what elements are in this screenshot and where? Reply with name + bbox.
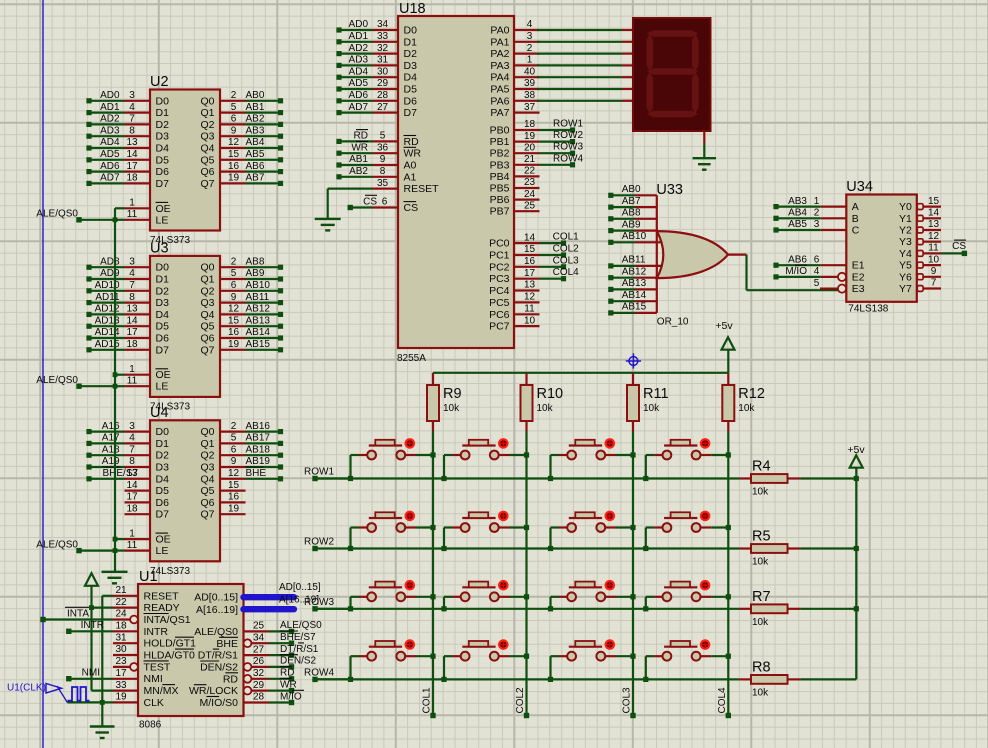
svg-text:PA5: PA5 xyxy=(490,84,509,96)
svg-text:CS: CS xyxy=(404,202,419,214)
svg-text:AD2: AD2 xyxy=(349,43,369,54)
svg-text:INTA/QS1: INTA/QS1 xyxy=(144,614,191,626)
svg-text:2: 2 xyxy=(231,256,237,267)
svg-text:AB6: AB6 xyxy=(246,161,265,172)
svg-text:10k: 10k xyxy=(752,557,769,568)
svg-text:AD15: AD15 xyxy=(95,339,120,350)
svg-text:OE: OE xyxy=(156,534,171,546)
svg-text:ROW1: ROW1 xyxy=(304,467,334,478)
svg-text:Q3: Q3 xyxy=(200,297,214,309)
svg-text:D3: D3 xyxy=(156,131,170,143)
svg-text:ALE/QS0: ALE/QS0 xyxy=(36,539,78,550)
svg-text:D7: D7 xyxy=(156,178,170,190)
svg-text:ALE/QS0: ALE/QS0 xyxy=(194,626,238,638)
svg-text:D4: D4 xyxy=(156,143,170,155)
svg-text:AD7: AD7 xyxy=(349,102,369,113)
svg-text:R12: R12 xyxy=(738,386,765,402)
svg-text:Y5: Y5 xyxy=(899,260,912,272)
svg-text:PB1: PB1 xyxy=(490,136,510,148)
svg-text:D2: D2 xyxy=(156,450,170,462)
svg-text:22: 22 xyxy=(524,166,536,177)
svg-text:AD4: AD4 xyxy=(349,66,369,77)
svg-text:17: 17 xyxy=(126,161,138,172)
svg-text:Q5: Q5 xyxy=(200,485,214,497)
svg-text:RD: RD xyxy=(280,668,294,679)
svg-text:ROW1: ROW1 xyxy=(553,119,583,130)
svg-text:M/IO: M/IO xyxy=(785,266,807,277)
svg-text:Y4: Y4 xyxy=(899,248,912,260)
svg-text:PC2: PC2 xyxy=(489,261,510,273)
svg-text:RD: RD xyxy=(404,136,420,148)
svg-text:Q4: Q4 xyxy=(200,143,214,155)
svg-text:1: 1 xyxy=(814,196,820,207)
svg-text:PA3: PA3 xyxy=(490,60,509,72)
svg-text:A1: A1 xyxy=(404,171,417,183)
svg-text:Q5: Q5 xyxy=(200,321,214,333)
svg-text:14: 14 xyxy=(126,480,138,491)
svg-text:D0: D0 xyxy=(156,262,170,274)
svg-text:COL4: COL4 xyxy=(717,687,728,714)
svg-text:15: 15 xyxy=(228,149,240,160)
svg-text:10k: 10k xyxy=(738,403,755,414)
svg-text:COL1: COL1 xyxy=(553,232,580,243)
svg-text:AB0: AB0 xyxy=(246,90,265,101)
svg-text:Q2: Q2 xyxy=(200,450,214,462)
svg-text:R8: R8 xyxy=(752,659,771,675)
svg-text:BHE/S7: BHE/S7 xyxy=(103,468,139,479)
svg-text:D0: D0 xyxy=(404,25,418,37)
svg-text:RD: RD xyxy=(354,131,368,142)
svg-text:R11: R11 xyxy=(643,386,669,402)
svg-text:17: 17 xyxy=(524,268,536,279)
svg-text:AB2: AB2 xyxy=(246,114,265,125)
svg-text:COL4: COL4 xyxy=(553,267,580,278)
svg-text:AD3: AD3 xyxy=(100,125,120,136)
svg-text:32: 32 xyxy=(377,43,389,54)
svg-text:29: 29 xyxy=(377,78,389,89)
svg-text:Q3: Q3 xyxy=(200,462,214,474)
svg-text:D6: D6 xyxy=(404,95,418,107)
svg-text:14: 14 xyxy=(126,315,138,326)
svg-text:AB18: AB18 xyxy=(246,444,271,455)
svg-text:COL2: COL2 xyxy=(515,687,526,714)
svg-text:Y1: Y1 xyxy=(899,213,912,225)
svg-text:DEN/S2: DEN/S2 xyxy=(200,661,238,673)
svg-text:18: 18 xyxy=(126,339,138,350)
svg-text:AB9: AB9 xyxy=(246,268,265,279)
svg-text:6: 6 xyxy=(231,280,237,291)
svg-text:PB2: PB2 xyxy=(490,148,510,160)
svg-text:27: 27 xyxy=(377,102,389,113)
svg-text:19: 19 xyxy=(228,173,240,184)
svg-text:D1: D1 xyxy=(156,274,170,286)
svg-text:D5: D5 xyxy=(156,485,170,497)
svg-text:NMI: NMI xyxy=(144,673,163,685)
svg-text:AD8: AD8 xyxy=(100,256,120,267)
svg-text:Q2: Q2 xyxy=(200,285,214,297)
svg-text:D5: D5 xyxy=(156,154,170,166)
svg-text:2: 2 xyxy=(527,43,533,54)
svg-text:D1: D1 xyxy=(156,107,170,119)
svg-text:D2: D2 xyxy=(156,285,170,297)
svg-text:HOLD/GT1: HOLD/GT1 xyxy=(144,638,197,650)
svg-text:AB8: AB8 xyxy=(246,256,265,267)
svg-text:14: 14 xyxy=(928,208,940,219)
svg-text:ALE/QS0: ALE/QS0 xyxy=(280,620,322,631)
svg-text:AD6: AD6 xyxy=(349,90,369,101)
svg-text:AB4: AB4 xyxy=(788,208,807,219)
svg-text:16: 16 xyxy=(228,492,240,503)
svg-text:19: 19 xyxy=(115,692,127,703)
svg-text:AB13: AB13 xyxy=(246,315,271,326)
svg-text:10: 10 xyxy=(928,254,940,265)
svg-text:11: 11 xyxy=(524,304,535,315)
svg-text:Q7: Q7 xyxy=(200,509,214,521)
svg-text:RESET: RESET xyxy=(404,183,440,195)
svg-text:11: 11 xyxy=(127,375,138,386)
svg-text:D3: D3 xyxy=(156,297,170,309)
svg-text:RD: RD xyxy=(223,673,239,685)
svg-text:AB3: AB3 xyxy=(246,125,265,136)
svg-text:9: 9 xyxy=(931,266,937,277)
svg-text:U2: U2 xyxy=(150,74,169,90)
svg-text:D5: D5 xyxy=(404,84,418,96)
svg-text:INTA: INTA xyxy=(67,608,89,619)
svg-text:D0: D0 xyxy=(156,95,170,107)
svg-text:WR: WR xyxy=(280,679,297,690)
svg-text:5: 5 xyxy=(814,278,820,289)
svg-text:19: 19 xyxy=(228,503,240,514)
svg-text:74LS138: 74LS138 xyxy=(848,304,888,315)
svg-text:Q0: Q0 xyxy=(200,426,214,438)
svg-text:9: 9 xyxy=(231,292,237,303)
svg-text:AB19: AB19 xyxy=(246,456,271,467)
svg-text:PB6: PB6 xyxy=(490,194,510,206)
svg-text:CS: CS xyxy=(363,196,377,207)
svg-text:2: 2 xyxy=(231,421,237,432)
svg-text:PA4: PA4 xyxy=(490,72,509,84)
svg-text:AD0: AD0 xyxy=(349,19,369,30)
svg-text:CS: CS xyxy=(952,241,966,252)
svg-text:Y2: Y2 xyxy=(899,225,912,237)
svg-text:9: 9 xyxy=(231,125,237,136)
svg-text:M/IO: M/IO xyxy=(280,691,302,702)
svg-text:Q4: Q4 xyxy=(200,309,214,321)
svg-text:PC4: PC4 xyxy=(489,285,510,297)
svg-text:Q7: Q7 xyxy=(200,178,214,190)
svg-text:INTR: INTR xyxy=(81,620,104,631)
svg-text:12: 12 xyxy=(228,304,240,315)
svg-text:6: 6 xyxy=(814,254,820,265)
svg-text:32: 32 xyxy=(253,668,265,679)
svg-text:4: 4 xyxy=(129,102,135,113)
svg-text:8: 8 xyxy=(380,166,386,177)
svg-text:2: 2 xyxy=(814,208,820,219)
svg-text:36: 36 xyxy=(377,142,389,153)
svg-text:D6: D6 xyxy=(156,333,170,345)
svg-text:3: 3 xyxy=(129,90,135,101)
svg-text:PB7: PB7 xyxy=(490,206,510,218)
svg-text:4: 4 xyxy=(129,433,135,444)
svg-text:Q0: Q0 xyxy=(200,262,214,274)
svg-text:AB12: AB12 xyxy=(622,266,647,277)
svg-text:MN/MX: MN/MX xyxy=(144,685,179,697)
svg-text:ROW2: ROW2 xyxy=(304,537,334,548)
svg-text:R7: R7 xyxy=(752,589,771,605)
svg-text:ROW4: ROW4 xyxy=(304,667,334,678)
svg-text:18: 18 xyxy=(115,621,127,632)
svg-text:4: 4 xyxy=(129,268,135,279)
svg-text:16: 16 xyxy=(228,161,240,172)
svg-text:20: 20 xyxy=(524,142,536,153)
svg-text:19: 19 xyxy=(228,339,240,350)
svg-text:5: 5 xyxy=(231,268,237,279)
svg-text:1: 1 xyxy=(129,198,135,209)
svg-text:21: 21 xyxy=(524,154,536,165)
svg-text:D3: D3 xyxy=(156,462,170,474)
svg-text:BHE/S7: BHE/S7 xyxy=(280,632,316,643)
svg-text:14: 14 xyxy=(524,232,536,243)
svg-text:Q1: Q1 xyxy=(200,107,214,119)
svg-text:D4: D4 xyxy=(404,72,418,84)
svg-text:5: 5 xyxy=(231,433,237,444)
svg-text:29: 29 xyxy=(253,680,265,691)
svg-text:M/IO/S0: M/IO/S0 xyxy=(199,697,238,709)
svg-text:AB2: AB2 xyxy=(349,166,368,177)
svg-text:Y0: Y0 xyxy=(899,201,912,213)
svg-text:BHE: BHE xyxy=(216,638,238,650)
svg-text:38: 38 xyxy=(524,90,536,101)
svg-text:AD2: AD2 xyxy=(100,114,120,125)
svg-text:15: 15 xyxy=(928,196,940,207)
svg-text:AB10: AB10 xyxy=(622,231,647,242)
svg-text:ROW2: ROW2 xyxy=(553,130,583,141)
svg-text:6: 6 xyxy=(231,444,237,455)
svg-text:15: 15 xyxy=(228,315,240,326)
svg-text:34: 34 xyxy=(377,19,389,30)
svg-text:AD1: AD1 xyxy=(349,31,369,42)
svg-text:AB11: AB11 xyxy=(622,255,646,266)
svg-text:Q1: Q1 xyxy=(200,438,214,450)
svg-text:AB5: AB5 xyxy=(246,149,265,160)
svg-text:12: 12 xyxy=(928,231,940,242)
svg-text:AD0: AD0 xyxy=(100,90,120,101)
svg-text:Q1: Q1 xyxy=(200,274,214,286)
svg-text:D1: D1 xyxy=(404,36,418,48)
svg-text:18: 18 xyxy=(126,173,138,184)
svg-text:D7: D7 xyxy=(156,509,170,521)
svg-text:AD[0..15]: AD[0..15] xyxy=(194,591,238,603)
svg-text:AD11: AD11 xyxy=(95,292,120,303)
svg-text:Q3: Q3 xyxy=(200,131,214,143)
svg-text:PC6: PC6 xyxy=(489,309,510,321)
svg-text:AD12: AD12 xyxy=(95,304,120,315)
svg-text:11: 11 xyxy=(127,209,138,220)
svg-text:23: 23 xyxy=(115,656,127,667)
svg-text:R9: R9 xyxy=(443,386,462,402)
svg-text:WR: WR xyxy=(351,142,368,153)
svg-text:AD13: AD13 xyxy=(95,315,120,326)
svg-text:D7: D7 xyxy=(404,107,418,119)
svg-text:A18: A18 xyxy=(102,444,120,455)
svg-text:Y7: Y7 xyxy=(899,283,912,295)
svg-text:B: B xyxy=(852,213,859,225)
svg-text:4: 4 xyxy=(814,266,820,277)
svg-text:D5: D5 xyxy=(156,321,170,333)
svg-text:7: 7 xyxy=(129,280,135,291)
svg-text:AB9: AB9 xyxy=(622,219,641,230)
svg-text:DT/R/S1: DT/R/S1 xyxy=(280,644,319,655)
svg-text:11: 11 xyxy=(127,540,138,551)
svg-text:13: 13 xyxy=(126,304,138,315)
svg-text:PC0: PC0 xyxy=(489,238,510,250)
svg-text:3: 3 xyxy=(129,421,135,432)
svg-text:10k: 10k xyxy=(443,403,460,414)
svg-text:DEN/S2: DEN/S2 xyxy=(280,656,317,667)
svg-text:AB3: AB3 xyxy=(788,196,807,207)
svg-text:D7: D7 xyxy=(156,344,170,356)
svg-text:ROW3: ROW3 xyxy=(304,597,334,608)
svg-text:AD[0..15]: AD[0..15] xyxy=(279,582,321,593)
svg-text:10k: 10k xyxy=(537,403,554,414)
svg-text:A19: A19 xyxy=(102,456,120,467)
svg-text:AB13: AB13 xyxy=(622,278,647,289)
svg-text:AD7: AD7 xyxy=(100,173,120,184)
svg-text:23: 23 xyxy=(524,177,536,188)
svg-text:E1: E1 xyxy=(852,260,865,272)
svg-text:AB10: AB10 xyxy=(246,280,271,291)
svg-text:U1: U1 xyxy=(139,569,158,585)
svg-text:OE: OE xyxy=(156,369,171,381)
svg-text:30: 30 xyxy=(377,66,389,77)
svg-text:30: 30 xyxy=(115,644,127,655)
svg-text:COL1: COL1 xyxy=(422,687,433,714)
svg-text:6: 6 xyxy=(231,114,237,125)
svg-text:D0: D0 xyxy=(156,426,170,438)
svg-text:PC7: PC7 xyxy=(489,321,510,333)
svg-text:AB15: AB15 xyxy=(622,302,647,313)
svg-text:18: 18 xyxy=(126,503,138,514)
svg-text:8086: 8086 xyxy=(139,720,162,731)
svg-text:9: 9 xyxy=(231,456,237,467)
svg-text:33: 33 xyxy=(115,680,127,691)
svg-text:AB1: AB1 xyxy=(349,154,368,165)
svg-text:NMI: NMI xyxy=(82,668,100,679)
svg-text:PC5: PC5 xyxy=(489,297,510,309)
svg-text:5: 5 xyxy=(380,131,386,142)
svg-text:INTR: INTR xyxy=(144,626,169,638)
svg-text:10k: 10k xyxy=(752,687,769,698)
svg-text:Q4: Q4 xyxy=(200,473,214,485)
svg-text:AB5: AB5 xyxy=(788,219,807,230)
svg-text:8: 8 xyxy=(129,456,135,467)
svg-text:AB16: AB16 xyxy=(246,421,271,432)
svg-text:U33: U33 xyxy=(656,182,683,198)
svg-text:COL3: COL3 xyxy=(622,687,633,714)
svg-text:BHE: BHE xyxy=(246,468,267,479)
svg-text:U4: U4 xyxy=(150,405,169,421)
svg-text:34: 34 xyxy=(253,633,265,644)
svg-text:18: 18 xyxy=(524,119,536,130)
svg-text:CLK: CLK xyxy=(144,697,164,709)
svg-text:15: 15 xyxy=(524,244,536,255)
svg-text:10k: 10k xyxy=(752,617,769,628)
svg-text:PA2: PA2 xyxy=(490,48,509,60)
svg-text:A: A xyxy=(852,201,859,213)
svg-text:Q0: Q0 xyxy=(200,95,214,107)
svg-text:Q6: Q6 xyxy=(200,333,214,345)
svg-text:7: 7 xyxy=(931,278,937,289)
svg-text:33: 33 xyxy=(377,31,389,42)
svg-text:24: 24 xyxy=(115,609,127,620)
svg-text:Q6: Q6 xyxy=(200,166,214,178)
svg-text:31: 31 xyxy=(377,55,389,66)
svg-text:D1: D1 xyxy=(156,438,170,450)
svg-text:DT/R/S1: DT/R/S1 xyxy=(198,650,238,662)
svg-text:10k: 10k xyxy=(643,403,660,414)
svg-text:25: 25 xyxy=(524,200,536,211)
svg-text:35: 35 xyxy=(377,178,389,189)
svg-text:3: 3 xyxy=(527,31,533,42)
svg-text:AD9: AD9 xyxy=(100,268,120,279)
svg-text:Q5: Q5 xyxy=(200,154,214,166)
svg-text:AD14: AD14 xyxy=(95,327,120,338)
svg-text:PA6: PA6 xyxy=(490,95,509,107)
svg-text:AD6: AD6 xyxy=(100,161,120,172)
svg-text:13: 13 xyxy=(928,219,940,230)
svg-text:U34: U34 xyxy=(846,179,873,195)
svg-text:ROW3: ROW3 xyxy=(553,142,583,153)
svg-text:PA7: PA7 xyxy=(490,107,509,119)
svg-text:ALE/QS0: ALE/QS0 xyxy=(36,209,78,220)
svg-text:AD4: AD4 xyxy=(100,137,120,148)
svg-text:Q2: Q2 xyxy=(200,119,214,131)
svg-text:10k: 10k xyxy=(752,487,769,498)
svg-text:PB0: PB0 xyxy=(490,125,510,137)
svg-text:AB4: AB4 xyxy=(246,137,265,148)
svg-text:12: 12 xyxy=(524,292,536,303)
svg-text:8: 8 xyxy=(129,125,135,136)
svg-text:11: 11 xyxy=(928,243,939,254)
svg-text:AB14: AB14 xyxy=(246,327,271,338)
svg-text:OE: OE xyxy=(156,203,171,215)
svg-text:7: 7 xyxy=(129,444,135,455)
svg-text:22: 22 xyxy=(115,597,127,608)
svg-text:12: 12 xyxy=(228,137,240,148)
svg-text:D6: D6 xyxy=(156,166,170,178)
svg-text:HLDA/GT0: HLDA/GT0 xyxy=(144,650,196,662)
svg-text:PC1: PC1 xyxy=(489,250,510,262)
svg-text:C: C xyxy=(852,225,860,237)
svg-text:A[16..19]: A[16..19] xyxy=(196,604,238,616)
svg-text:15: 15 xyxy=(228,480,240,491)
svg-text:E2: E2 xyxy=(852,271,865,283)
svg-text:AD3: AD3 xyxy=(349,55,369,66)
svg-text:16: 16 xyxy=(228,327,240,338)
svg-text:TEST: TEST xyxy=(144,661,171,673)
svg-text:25: 25 xyxy=(253,621,265,632)
svg-text:AB15: AB15 xyxy=(246,339,271,350)
svg-text:ALE/QS0: ALE/QS0 xyxy=(36,375,78,386)
svg-text:27: 27 xyxy=(253,644,265,655)
svg-text:AB17: AB17 xyxy=(246,433,271,444)
svg-text:A0: A0 xyxy=(404,160,417,172)
svg-text:28: 28 xyxy=(253,692,265,703)
svg-text:6: 6 xyxy=(382,196,388,207)
svg-text:D2: D2 xyxy=(404,48,418,60)
svg-text:D4: D4 xyxy=(156,309,170,321)
svg-text:AB6: AB6 xyxy=(788,254,807,265)
